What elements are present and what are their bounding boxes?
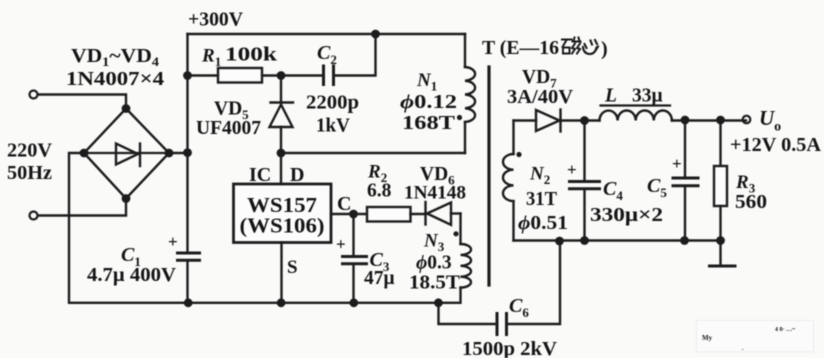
svg-text:1N4148: 1N4148 xyxy=(404,183,466,204)
label C1 4.7u 400V xyxy=(87,244,176,286)
svg-text:100k: 100k xyxy=(225,45,277,66)
svg-text:1kV: 1kV xyxy=(316,116,350,137)
svg-text:3A/40V: 3A/40V xyxy=(507,87,573,108)
svg-text:Uo: Uo xyxy=(759,106,781,135)
resistor R1 xyxy=(188,68,286,83)
svg-text:1500p 2kV: 1500p 2kV xyxy=(462,339,557,358)
svg-text:18.5T: 18.5T xyxy=(409,273,460,294)
capacitor C2 xyxy=(281,34,376,85)
svg-text:ϕ0.3: ϕ0.3 xyxy=(416,253,452,274)
diode VD7 xyxy=(514,110,585,132)
terminal AC input top xyxy=(30,91,38,99)
label S xyxy=(287,257,298,278)
label N1 phi0.12 168T xyxy=(400,70,457,134)
svg-text:+12V 0.5A: +12V 0.5A xyxy=(730,135,821,156)
wire +300V rail xyxy=(188,30,466,39)
label 220V 50Hz xyxy=(7,140,53,185)
capacitor C6 xyxy=(439,241,561,335)
label C2 2200p 1kV xyxy=(306,42,359,137)
glyph ci (magnetic) hand-drawn xyxy=(562,38,581,54)
label + of C5 xyxy=(672,154,682,173)
svg-text:6.8: 6.8 xyxy=(367,181,392,202)
resistor R3 xyxy=(714,116,727,245)
svg-text:C6: C6 xyxy=(509,295,529,320)
capacitor C3 xyxy=(343,214,367,307)
svg-text:4 8· …~: 4 8· …~ xyxy=(775,327,796,333)
wire snubber node to N1 bottom xyxy=(277,149,465,158)
label T (E-16 cixin) xyxy=(482,37,559,59)
label L 33u with underline xyxy=(604,86,663,107)
node A junction VD7/C4/L xyxy=(580,116,589,125)
label R2 6.8 xyxy=(367,162,392,202)
svg-text:33μ: 33μ xyxy=(632,86,663,107)
svg-text:+: + xyxy=(336,235,346,254)
transformer core xyxy=(487,67,490,285)
svg-text:+: + xyxy=(567,160,577,179)
label N3 phi0.3 18.5T xyxy=(409,231,460,294)
label + of C1 xyxy=(168,232,178,251)
diode VD5 xyxy=(270,76,294,154)
label R1 100k xyxy=(201,45,277,70)
IC U1 WS157 box xyxy=(234,184,332,243)
svg-text:(WS106): (WS106) xyxy=(240,214,325,238)
label closing paren xyxy=(601,38,608,60)
svg-text:31T: 31T xyxy=(526,189,557,210)
label VD7 3A/40V xyxy=(507,67,573,108)
svg-text:ϕ0.51: ϕ0.51 xyxy=(518,213,568,234)
svg-text:4.7μ 400V: 4.7μ 400V xyxy=(87,265,176,286)
label VD6 1N4148 xyxy=(404,164,466,204)
wire AC input top xyxy=(38,95,126,109)
terminal Uo output xyxy=(743,116,751,124)
label VD5 UF4007 xyxy=(196,99,261,140)
label +300V xyxy=(188,9,244,31)
svg-text:220V: 220V xyxy=(7,140,53,162)
svg-text:N2: N2 xyxy=(529,164,550,188)
label C6 1500p 2kV xyxy=(462,295,557,358)
svg-text:L: L xyxy=(604,86,617,107)
svg-text:50Hz: 50Hz xyxy=(7,162,52,184)
svg-text:C5: C5 xyxy=(647,175,667,200)
svg-text:ϕ0.12: ϕ0.12 xyxy=(400,92,457,113)
terminal AC input bottom xyxy=(30,212,38,220)
winding N3 xyxy=(434,214,471,308)
svg-text:560: 560 xyxy=(735,192,767,213)
label WS157 (WS106) xyxy=(240,193,325,238)
watermark box bottom right xyxy=(697,321,814,353)
diode VD6 xyxy=(426,202,461,225)
label C4 330ux2 xyxy=(590,178,663,226)
wire AC input bottom xyxy=(38,199,126,216)
svg-text:T (E—16: T (E—16 xyxy=(482,37,559,59)
wire bridge positive riser xyxy=(169,34,192,252)
label R3 560 xyxy=(735,172,767,213)
label Uo +12V 0.5A xyxy=(730,106,821,156)
svg-text:168T: 168T xyxy=(402,113,455,134)
svg-text:): ) xyxy=(601,38,608,60)
label C5 xyxy=(647,175,667,200)
svg-text:2200p: 2200p xyxy=(306,93,359,114)
svg-text:C4: C4 xyxy=(603,178,623,203)
label + of C4 xyxy=(567,160,577,179)
resistor R2 xyxy=(367,207,426,222)
wire secondary ground rail xyxy=(514,237,721,246)
capacitor C5 xyxy=(673,116,698,245)
svg-text:47μ: 47μ xyxy=(364,268,395,289)
inductor L xyxy=(585,110,747,120)
glyph xin (heart) hand-drawn xyxy=(583,40,598,54)
wire D pin xyxy=(280,153,282,184)
capacitor C1 xyxy=(178,253,200,307)
wire C pin xyxy=(331,210,367,219)
svg-text:+: + xyxy=(672,154,682,173)
capacitor C4 xyxy=(570,121,600,245)
label VD1~VD4 1N4007x4 xyxy=(66,46,164,90)
label + of C3 xyxy=(336,235,346,254)
wire bridge negative to ground rail xyxy=(69,153,439,303)
label IC D xyxy=(249,164,304,186)
svg-text:R1: R1 xyxy=(201,46,221,70)
svg-text:UF4007: UF4007 xyxy=(196,118,261,139)
svg-text:VD1~VD4: VD1~VD4 xyxy=(71,46,160,69)
label N2 31T phi0.51 xyxy=(518,164,568,235)
svg-text:S: S xyxy=(287,257,298,278)
svg-text:N1: N1 xyxy=(416,70,437,94)
svg-text:330μ×2: 330μ×2 xyxy=(590,205,663,226)
svg-text:+: + xyxy=(168,232,178,251)
ground xyxy=(710,241,736,267)
svg-text:+300V: +300V xyxy=(188,9,244,31)
svg-text:C2: C2 xyxy=(317,42,337,67)
svg-text:1N4007×4: 1N4007×4 xyxy=(66,69,164,90)
bridge rectifier VD1-VD4 xyxy=(80,104,174,203)
label C3 47u xyxy=(364,249,395,289)
svg-text:N3: N3 xyxy=(423,231,445,255)
label C xyxy=(337,193,351,215)
svg-text:My: My xyxy=(702,334,713,342)
winding N1 xyxy=(457,34,475,153)
wire S pin xyxy=(277,243,286,308)
svg-text:C: C xyxy=(337,193,351,215)
winding N2 xyxy=(503,121,522,241)
svg-text:D: D xyxy=(290,164,304,186)
svg-text:IC: IC xyxy=(249,164,271,186)
